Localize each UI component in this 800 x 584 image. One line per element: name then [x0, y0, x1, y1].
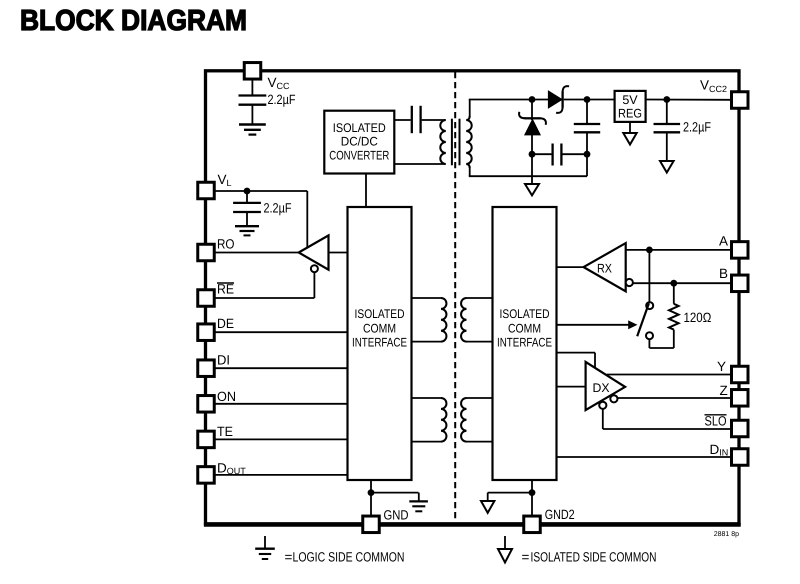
pin VCC	[244, 63, 290, 91]
svg-text:DI: DI	[217, 352, 230, 367]
switch control arrow from comm interface	[557, 320, 638, 329]
wire RX output to comm interface	[557, 266, 584, 268]
svg-text:REG: REG	[618, 106, 642, 120]
outer device boundary box	[204, 71, 741, 525]
bubble on DX Z output	[610, 395, 617, 402]
svg-text:DX: DX	[593, 381, 611, 395]
pin GND2	[524, 507, 575, 533]
pin B	[719, 266, 748, 292]
wire Z	[618, 397, 731, 399]
svg-text:GND: GND	[384, 508, 409, 523]
pin Z	[720, 383, 749, 406]
pin GND	[363, 508, 409, 533]
wire dc/dc to coupling cap	[394, 119, 410, 121]
legend logic ground symbol	[255, 536, 275, 559]
transformer T1 core	[452, 119, 460, 166]
svg-text:INTERFACE: INTERFACE	[497, 336, 552, 350]
legend isolated ground symbol	[498, 536, 512, 563]
wire diode to 5V reg	[564, 99, 615, 101]
series capacitor (flying)	[532, 144, 587, 166]
svg-text:Y: Y	[717, 359, 726, 374]
wire RE to buffer enable	[215, 272, 314, 298]
node on A wire	[646, 247, 653, 254]
wire DE	[215, 331, 348, 333]
capacitor 2.2uF at VCC	[239, 92, 296, 124]
ground (logic) under VL cap	[235, 226, 259, 235]
node on B wire	[670, 280, 677, 287]
wire comm interface to GND2 pin	[531, 480, 533, 515]
svg-text:2.2µF: 2.2µF	[264, 201, 292, 216]
note 2881 bd	[714, 531, 739, 538]
power transformer T1 secondary winding	[466, 116, 472, 168]
svg-text:120Ω: 120Ω	[684, 310, 712, 325]
wire DX input	[557, 386, 586, 388]
pin DIN	[710, 442, 749, 465]
signal transformer T2 left winding	[441, 298, 446, 342]
wire VCC bypass	[251, 80, 253, 96]
svg-text:SLO: SLO	[705, 414, 727, 429]
svg-text:2.2µF: 2.2µF	[268, 92, 296, 107]
pin A	[719, 233, 748, 258]
capacitor 2.2uF at VCC2	[654, 100, 712, 162]
isolated dc/dc converter box	[324, 111, 394, 174]
wire secondary bottom rail	[469, 167, 587, 176]
wire to logic ground stub	[371, 493, 419, 502]
pin RE (active low)	[198, 282, 234, 307]
wire bottom signal transformer left leads	[412, 398, 442, 442]
ground (logic) near GND	[409, 501, 428, 511]
wire DX supply from comm interface	[557, 353, 596, 368]
isolated ground under rectifier	[525, 176, 539, 195]
svg-text:Z: Z	[720, 383, 728, 398]
pin VL	[198, 172, 232, 199]
svg-text:COMM: COMM	[508, 321, 541, 335]
coupling capacitor (series)	[412, 106, 421, 133]
pin Y	[717, 359, 748, 383]
comm interface box (logic side)	[348, 207, 412, 480]
wire to isolated ground stub	[488, 493, 532, 501]
svg-text:ISOLATED: ISOLATED	[500, 307, 550, 321]
ground (logic) under VCC cap	[239, 125, 266, 135]
svg-text:ISOLATED: ISOLATED	[355, 307, 405, 321]
svg-text:2881 8p: 2881 8p	[714, 531, 739, 538]
wire transformer primary bottom to dc/dc	[394, 163, 445, 165]
diode D1 (schottky)	[548, 86, 569, 113]
signal transformer T3 left winding	[441, 398, 446, 442]
shunt capacitor at rectifier	[574, 100, 600, 177]
wire VL to buffer supply	[215, 191, 307, 247]
wire switch to resistor bottom	[649, 347, 673, 349]
wire ON	[215, 403, 348, 405]
svg-text:COMM: COMM	[363, 321, 396, 335]
wire A	[626, 249, 730, 251]
node GND2	[529, 489, 536, 496]
wire Y	[607, 374, 730, 376]
resistor 120 ohm	[669, 283, 712, 348]
svg-text:DC/DC: DC/DC	[341, 135, 378, 149]
pin DOUT	[198, 461, 247, 484]
svg-text:TE: TE	[217, 424, 233, 439]
svg-text:CONVERTER: CONVERTER	[329, 148, 389, 162]
signal transformer T3 right winding	[461, 398, 466, 442]
title BLOCK DIAGRAM	[20, 5, 247, 37]
pin TE	[198, 424, 233, 448]
power transformer T1 primary winding	[440, 120, 446, 164]
wire comm interface to GND pin	[370, 480, 372, 515]
svg-text:INTERFACE: INTERFACE	[352, 336, 407, 350]
bubble on RX inverting input	[626, 279, 633, 286]
wire RO	[215, 252, 299, 254]
wire secondary top rail	[469, 100, 549, 118]
node after diode	[584, 96, 591, 103]
capacitor 2.2uF at VL	[233, 191, 291, 226]
isolated ground near GND2	[481, 501, 494, 513]
pin SLO (active low)	[705, 414, 749, 437]
pin ON	[198, 389, 236, 412]
wire cap to transformer primary	[422, 119, 444, 121]
enable bubble on RO buffer	[311, 265, 318, 272]
wire DIN	[557, 456, 731, 458]
pin DE	[198, 316, 234, 340]
node secondary top	[529, 96, 536, 103]
bubble on DX SLO	[599, 402, 606, 409]
pin DI	[198, 352, 230, 376]
node series cap right	[584, 151, 591, 158]
svg-text:A: A	[719, 233, 728, 248]
node VCC2 bypass	[663, 96, 670, 103]
svg-text:ISOLATED SIDE COMMON: ISOLATED SIDE COMMON	[531, 550, 657, 565]
svg-text:DE: DE	[217, 316, 234, 331]
isolated ground under 5V reg	[623, 122, 636, 145]
pin RO	[198, 237, 235, 261]
svg-text:RE: RE	[217, 282, 234, 297]
wire buffer input from comm interface	[329, 252, 348, 254]
receiver RX	[584, 243, 626, 291]
svg-text:BLOCK DIAGRAM: BLOCK DIAGRAM	[20, 5, 247, 37]
signal transformer T2 right winding	[461, 298, 466, 342]
svg-text:RX: RX	[597, 262, 613, 276]
svg-text:ISOLATED: ISOLATED	[333, 121, 386, 135]
svg-text:2.2µF: 2.2µF	[683, 120, 711, 135]
wire DOUT	[215, 474, 348, 476]
buffer (RO output, left-pointing)	[299, 235, 329, 269]
svg-text:=: =	[285, 550, 293, 565]
wire DI	[215, 367, 348, 369]
comm interface box (isolated side)	[493, 207, 557, 480]
legend logic side text	[285, 550, 405, 565]
isolation barrier (dashed)	[454, 72, 456, 522]
svg-text:GND2: GND2	[545, 507, 575, 522]
svg-text:ON: ON	[217, 389, 236, 404]
5V regulator box	[615, 91, 646, 122]
wire SLO	[603, 409, 730, 429]
svg-text:=: =	[522, 550, 530, 565]
node zener anode	[529, 151, 536, 158]
wire A node to switch	[648, 250, 650, 302]
termination switch S1	[637, 302, 653, 348]
zener diode D2 (schottky clamp)	[519, 100, 546, 177]
svg-text:5V: 5V	[622, 93, 638, 107]
svg-text:RO: RO	[217, 237, 235, 252]
pin VCC2	[700, 78, 748, 109]
isolated ground under VCC2 cap	[660, 161, 674, 173]
wire top signal transformer left leads	[412, 298, 442, 342]
wire dc/dc to comm interface	[365, 174, 367, 208]
wire top signal transformer right leads	[467, 298, 493, 342]
wire TE	[215, 438, 348, 440]
legend isolated side text	[522, 550, 657, 565]
svg-text:LOGIC SIDE COMMON: LOGIC SIDE COMMON	[293, 550, 405, 565]
driver DX	[586, 362, 626, 410]
svg-text:B: B	[719, 266, 728, 281]
wire 5V reg to VCC2	[646, 99, 730, 101]
node GND	[368, 489, 375, 496]
wire B	[633, 282, 730, 284]
node at VL cap	[244, 188, 251, 195]
wire bottom signal transformer right leads	[467, 398, 493, 442]
